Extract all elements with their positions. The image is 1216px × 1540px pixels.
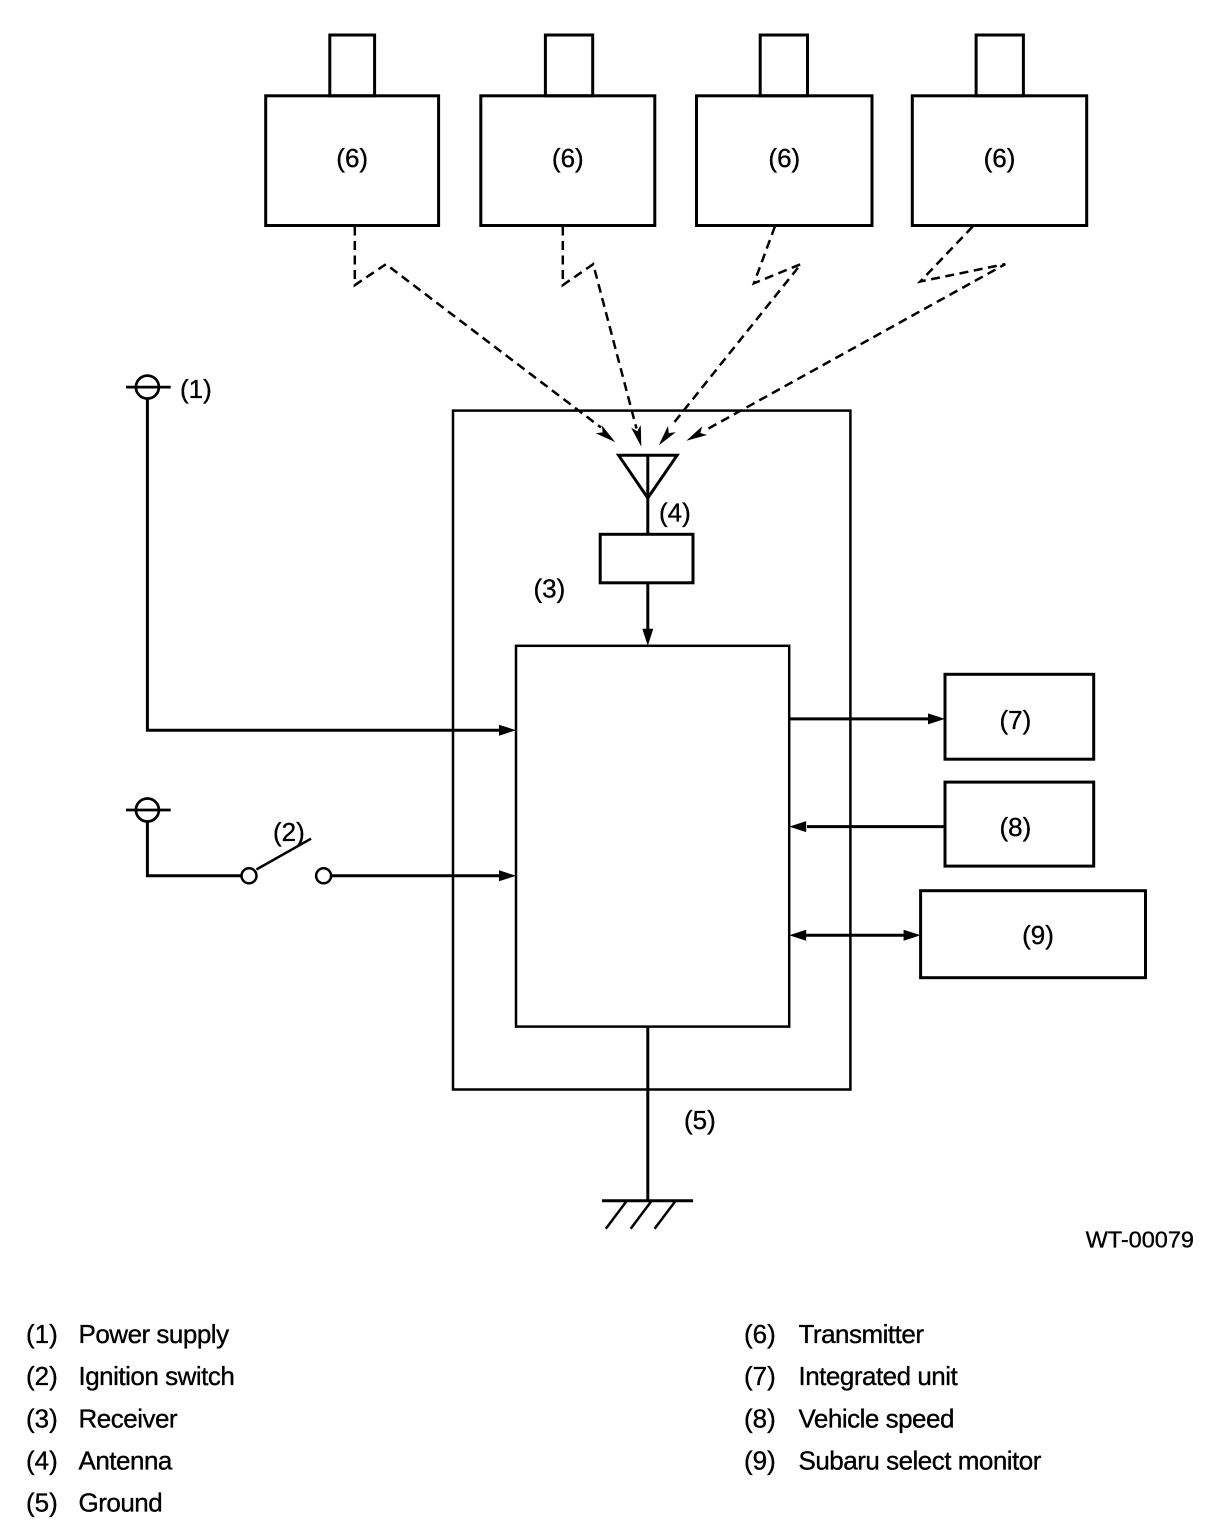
ignition switch S1 blade <box>256 839 311 870</box>
svg-text:Transmitter: Transmitter <box>799 1319 925 1349</box>
transmitter U1 body <box>266 96 439 226</box>
svg-text:Subaru select monitor: Subaru select monitor <box>799 1446 1042 1476</box>
wire power supply to controller <box>147 398 516 736</box>
svg-text:(3): (3) <box>26 1403 58 1433</box>
transmitter U2 antenna stub <box>545 35 592 96</box>
transmitter U4 antenna stub <box>976 35 1023 96</box>
wire tuner to controller with arrowhead <box>642 583 653 646</box>
svg-text:Vehicle speed: Vehicle speed <box>799 1403 954 1433</box>
svg-text:(5): (5) <box>26 1488 58 1518</box>
transmitter U1 antenna stub <box>330 35 375 96</box>
RF signal dashed arrow from transmitter U2 <box>563 227 646 448</box>
ignition switch S1 contact a <box>242 868 257 883</box>
svg-text:(4): (4) <box>659 498 691 528</box>
svg-text:(6): (6) <box>984 143 1016 173</box>
wire ignition terminal to switch <box>147 821 241 876</box>
svg-text:(2): (2) <box>273 817 305 847</box>
svg-text:Ignition switch: Ignition switch <box>79 1361 235 1391</box>
svg-text:Integrated unit: Integrated unit <box>799 1361 959 1391</box>
svg-text:(9): (9) <box>744 1446 776 1476</box>
antenna (4) triangle <box>619 455 678 498</box>
arrow vehicle speed (8) to controller <box>789 821 945 832</box>
vehicle speed box (8) <box>945 782 1094 866</box>
RF signal dashed arrow from transmitter U3 <box>655 227 801 449</box>
svg-text:(5): (5) <box>684 1105 716 1135</box>
controller inner box <box>516 646 789 1027</box>
transmitter U2 body <box>481 96 655 226</box>
power supply terminal (1) <box>126 376 171 399</box>
transmitter U3 antenna stub <box>760 35 807 96</box>
svg-text:(1): (1) <box>180 374 212 404</box>
integrated unit box (7) <box>945 674 1094 759</box>
double arrow controller to select monitor (9) <box>789 930 920 941</box>
svg-text:Power supply: Power supply <box>79 1319 230 1349</box>
RF signal dashed arrow from transmitter U1 <box>355 227 619 447</box>
svg-text:(1): (1) <box>26 1319 58 1349</box>
svg-text:(2): (2) <box>26 1361 58 1391</box>
svg-text:(4): (4) <box>26 1446 58 1476</box>
receiver outer box (3) <box>453 411 850 1090</box>
antenna lead wire <box>646 455 649 534</box>
ignition switch S1 contact b <box>316 868 331 883</box>
ignition terminal <box>126 799 171 822</box>
select monitor box (9) <box>921 891 1146 978</box>
svg-text:(8): (8) <box>1000 812 1032 842</box>
tuner box below antenna <box>600 534 693 583</box>
arrow controller to integrated unit (7) <box>789 713 945 724</box>
svg-text:(6): (6) <box>336 143 368 173</box>
svg-text:(6): (6) <box>552 143 584 173</box>
svg-text:(3): (3) <box>534 574 566 604</box>
wire switch to controller <box>331 870 516 881</box>
svg-text:Receiver: Receiver <box>79 1403 178 1433</box>
transmitter U3 body <box>697 96 873 226</box>
svg-text:(9): (9) <box>1022 920 1054 950</box>
svg-text:(7): (7) <box>1000 705 1032 735</box>
ground wire (5) <box>646 1027 649 1201</box>
svg-text:(6): (6) <box>768 143 800 173</box>
svg-text:(7): (7) <box>744 1361 776 1391</box>
svg-text:Ground: Ground <box>79 1488 163 1518</box>
svg-text:(6): (6) <box>744 1319 776 1349</box>
ground symbol <box>602 1201 693 1229</box>
svg-text:(8): (8) <box>744 1403 776 1433</box>
svg-text:Antenna: Antenna <box>79 1446 173 1476</box>
transmitter U4 body <box>912 96 1086 226</box>
RF signal dashed arrow from transmitter U4 <box>684 227 1005 446</box>
svg-text:WT-00079: WT-00079 <box>1086 1227 1194 1253</box>
